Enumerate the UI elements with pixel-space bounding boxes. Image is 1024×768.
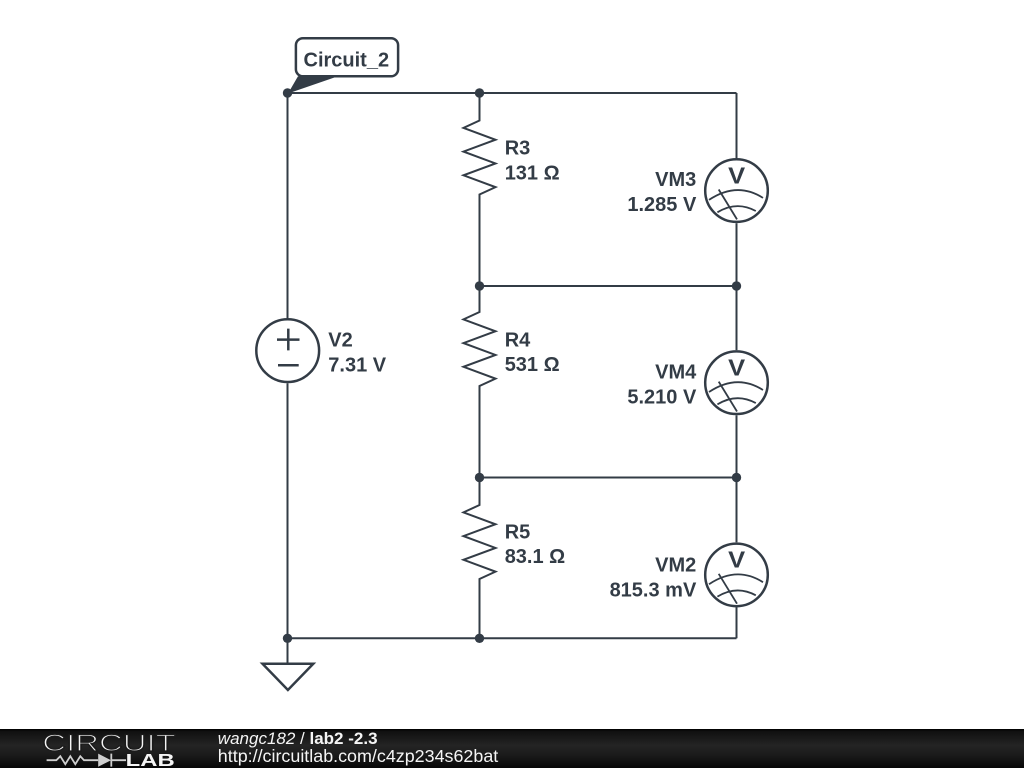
voltage source V2 circle <box>256 319 319 382</box>
VM3 designator label <box>655 169 696 191</box>
CircuitLab logo resistor-diode glyph <box>47 754 126 767</box>
svg-text:V: V <box>728 547 746 573</box>
svg-text:R5: R5 <box>505 522 531 544</box>
VM4 reading label 5.210 V <box>627 387 697 409</box>
VM4 meter needle <box>719 382 737 412</box>
resistor R4 <box>464 286 496 478</box>
callout box Circuit_2 <box>296 38 398 76</box>
resistor R5 <box>464 478 496 639</box>
svg-text:VM2: VM2 <box>655 554 696 576</box>
R3 value label 131 ohm <box>505 162 560 184</box>
svg-text:V2: V2 <box>328 329 352 351</box>
VM2 symbol letter V <box>728 547 746 573</box>
VM2 designator label <box>655 554 696 576</box>
V2 plus sign <box>277 329 300 351</box>
wire right column VM2 bottom lead <box>736 608 738 639</box>
resistor R3 <box>464 93 496 286</box>
voltmeter VM2 circle <box>705 544 768 607</box>
VM4 symbol letter V <box>728 355 746 381</box>
svg-text:Circuit_2: Circuit_2 <box>304 50 390 72</box>
VM2 reading label 815.3 mV <box>610 580 697 602</box>
R4 designator label <box>505 330 531 352</box>
junction node bottom of R5 <box>475 634 484 643</box>
junction node top of R3 <box>475 88 484 97</box>
R5 value label 83.1 ohm <box>505 546 566 568</box>
VM3 reading label 1.285 V <box>627 194 697 216</box>
svg-text:531 Ω: 531 Ω <box>505 354 560 376</box>
VM4 meter arcs <box>709 382 763 404</box>
footer username and title line <box>218 729 498 766</box>
voltmeter VM4 circle <box>705 351 768 414</box>
svg-text:V: V <box>728 355 746 381</box>
svg-text:R4: R4 <box>505 330 531 352</box>
VM3 symbol letter V <box>728 162 746 188</box>
VM3 meter needle <box>719 190 737 220</box>
V2 value label 7.31 V <box>328 354 386 376</box>
junction node VM3/VM4 row <box>732 281 741 290</box>
R3 designator label <box>505 138 531 160</box>
wire right column between VM4 and net row 3 <box>736 415 738 477</box>
svg-text:5.210 V: 5.210 V <box>627 387 697 409</box>
wire net row 3 (R4 bottom to VM2 branch) <box>480 477 737 479</box>
svg-text:V: V <box>728 162 746 188</box>
wire left column upper (node A down to V2 plus terminal) <box>287 93 289 318</box>
svg-text:R3: R3 <box>505 138 531 160</box>
svg-text:131 Ω: 131 Ω <box>505 162 560 184</box>
junction node bottom-left <box>283 634 292 643</box>
junction node A top-left <box>283 88 292 97</box>
svg-text:7.31 V: 7.31 V <box>328 354 386 376</box>
junction node R4/R5 row <box>475 473 484 482</box>
voltmeter VM3 circle <box>705 159 768 222</box>
CircuitLab logo word LAB <box>126 750 175 768</box>
wire middle net row 2 (R3 bottom to VM3 bottom) <box>480 285 737 287</box>
wire right column between middle net and VM4 <box>736 286 738 350</box>
svg-text:VM4: VM4 <box>655 362 697 384</box>
callout label text Circuit_2 <box>304 50 390 72</box>
svg-text:LAB: LAB <box>126 750 175 768</box>
wire right column VM2 top lead <box>736 478 738 543</box>
junction node VM4/VM2 row <box>732 473 741 482</box>
junction node R3/R4 row <box>475 281 484 290</box>
callout pointer tail <box>288 76 338 93</box>
svg-text:http://circuitlab.com/c4zp234s: http://circuitlab.com/c4zp234s62bat <box>218 746 498 766</box>
R5 designator label <box>505 522 531 544</box>
V2 minus sign <box>278 364 299 367</box>
svg-text:VM3: VM3 <box>655 169 696 191</box>
svg-text:1.285 V: 1.285 V <box>627 194 697 216</box>
R4 value label 531 ohm <box>505 354 560 376</box>
ground symbol <box>263 664 314 690</box>
wire right column VM3 top lead <box>736 93 738 158</box>
svg-text:815.3 mV: 815.3 mV <box>610 580 697 602</box>
wire bottom net <box>288 637 737 639</box>
svg-text:83.1 Ω: 83.1 Ω <box>505 546 566 568</box>
VM3 meter arcs <box>709 190 763 212</box>
V2 designator label <box>328 329 352 351</box>
wire right column between VM3 and middle net <box>736 223 738 286</box>
VM4 designator label <box>655 362 697 384</box>
wire left column lower (V2 minus terminal to bottom net) <box>287 383 289 638</box>
CircuitLab logo word CIRCUIT <box>42 730 176 757</box>
VM2 meter arcs <box>709 574 763 596</box>
wire top net from node A to top-right corner <box>288 92 737 94</box>
VM2 meter needle <box>719 574 737 604</box>
wire ground stub <box>287 638 289 663</box>
